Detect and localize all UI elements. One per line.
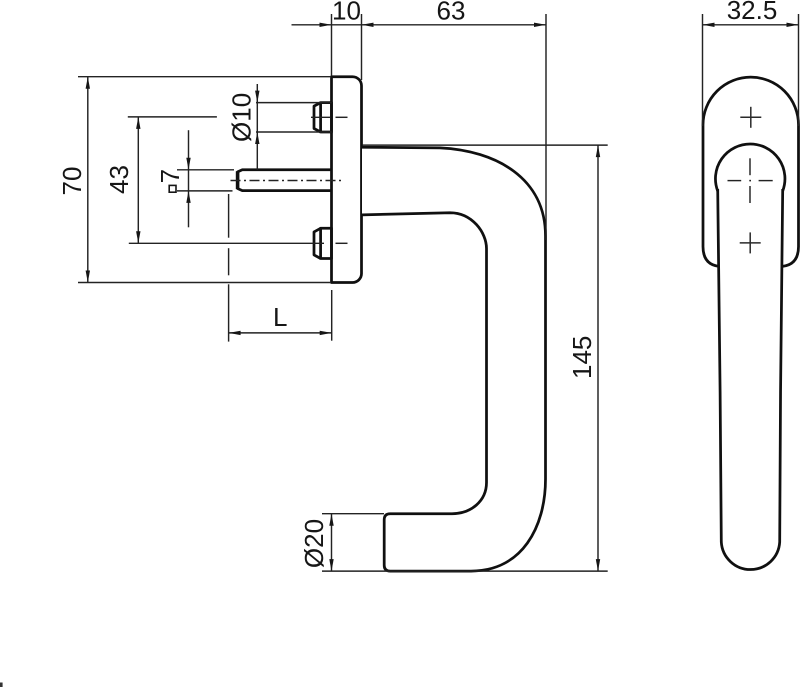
arrow 63 right: [534, 23, 546, 27]
hub front view: [715, 144, 785, 191]
arrow d20 top: [329, 514, 333, 526]
svg-text:L: L: [273, 302, 287, 332]
extension line 43 bottom: [129, 242, 324, 244]
cross top: [740, 116, 761, 118]
extension line L left dashed: [228, 194, 230, 238]
extension line handle-outer top: [545, 14, 547, 240]
dimension line 145: [597, 145, 599, 571]
arrow 70 top: [86, 77, 90, 89]
arrow 10 left: [320, 23, 332, 27]
centerline hub vertical: [749, 158, 751, 175]
arrow sq7 top: [186, 158, 190, 170]
svg-text:145: 145: [567, 336, 597, 379]
handle side view: [362, 147, 546, 571]
arrow 32.5 left: [703, 23, 715, 27]
extension line 70 bottom: [78, 282, 331, 284]
centerline hub horizontal: [728, 180, 742, 182]
square symbol of square-7 label: [169, 185, 176, 192]
extension line 145 top: [363, 144, 608, 146]
centerline boss1: [311, 116, 331, 118]
arrowheads: [86, 23, 799, 572]
arrow L right: [320, 331, 332, 335]
arrow 63 left: [362, 23, 374, 27]
svg-text:Ø20: Ø20: [299, 519, 329, 568]
grip front view: [718, 189, 783, 570]
dimension line square 7: [188, 130, 190, 227]
extension line rosette-right: [798, 14, 800, 126]
extension line spindle top: [177, 169, 234, 171]
spindle: [238, 170, 332, 191]
cross bottom: [740, 242, 761, 244]
dimension line diameter 20: [331, 514, 333, 571]
svg-text:7: 7: [155, 169, 185, 183]
dimension line L: [229, 332, 332, 334]
extension line bottom handle: [322, 570, 608, 572]
extension line L right: [331, 290, 333, 341]
svg-text:43: 43: [104, 165, 134, 194]
rosette front view: [703, 77, 799, 266]
svg-text:10: 10: [332, 0, 361, 26]
screw position crosses: [740, 107, 762, 254]
arrow 145 top: [596, 145, 600, 157]
extension line 70 top: [78, 76, 331, 78]
svg-text:32.5: 32.5: [727, 0, 778, 25]
arrow d20 bottom: [329, 559, 333, 571]
extension line rosette-left: [702, 14, 704, 126]
dimension line 10/63: [292, 24, 547, 26]
dimension texts: [57, 0, 777, 568]
arrow L left: [229, 331, 241, 335]
extension line spindle bottom: [177, 190, 233, 192]
svg-text:70: 70: [57, 167, 87, 196]
arrow sq7 bottom: [186, 191, 190, 203]
extension line plate-left top: [331, 14, 333, 76]
centerline spindle: [231, 180, 342, 182]
screw boss 2: [321, 228, 332, 258]
dimension line 32.5: [703, 24, 799, 26]
arrow 32.5 right: [787, 23, 799, 27]
extension line plate-right top: [361, 14, 363, 80]
corner artifact speck: [0, 683, 3, 687]
centerline boss2: [336, 242, 348, 244]
thick object geometry: [238, 77, 799, 571]
dimension line 70: [87, 77, 89, 283]
extension line 43 top: [128, 116, 217, 118]
arrow 43 top: [136, 117, 140, 129]
extension line grip top (diameter 20): [322, 513, 384, 515]
extension line boss bottom: [256, 131, 332, 133]
plate side view: [332, 77, 362, 283]
arrow 70 bottom: [86, 271, 90, 283]
arrow 43 bottom: [136, 231, 140, 243]
arrow d10 bottom: [255, 132, 259, 144]
arrow d10 top: [255, 91, 259, 103]
dimension line diameter 10: [256, 84, 258, 170]
extension line boss top: [256, 102, 332, 104]
screw boss 1: [321, 103, 332, 132]
arrow 145 bottom: [596, 559, 600, 571]
svg-text:Ø10: Ø10: [227, 93, 257, 142]
dimension line 43: [137, 117, 139, 243]
svg-text:63: 63: [437, 0, 466, 26]
